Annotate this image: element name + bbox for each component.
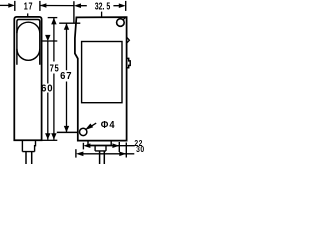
right view window bbox=[82, 42, 122, 103]
dim 75 bottom arrowhead bbox=[51, 133, 56, 139]
dim 75 top arrowhead bbox=[51, 18, 56, 25]
dim 30 right extension bar bbox=[125, 143, 127, 158]
right view top seam tick bbox=[101, 12, 103, 18]
right view side indicator wedge bbox=[127, 37, 130, 43]
dim 17 right tail shared line to 32.5 bbox=[40, 5, 74, 7]
right view bottom step1 bbox=[88, 141, 111, 146]
dim 30 line bbox=[83, 153, 134, 155]
svg-text:60: 60 bbox=[41, 83, 53, 94]
dim 75 stem bbox=[53, 18, 55, 140]
dim 22 line bbox=[90, 145, 135, 147]
right view top hole circle bbox=[117, 19, 125, 27]
dim 60 top crossbar bbox=[42, 40, 57, 42]
right view bottom step2 bbox=[95, 145, 106, 151]
svg-text:75: 75 bbox=[50, 62, 60, 73]
dim 22 right extension bar bbox=[118, 142, 120, 152]
dim 17 right arrowhead bbox=[40, 3, 47, 8]
left view inner cap frame bbox=[17, 20, 40, 65]
dim 30 left arrowhead bbox=[76, 152, 84, 157]
dim 17 left extension bar bbox=[14, 1, 16, 11]
bottom hole centerline bbox=[57, 131, 78, 133]
right view bottom hole circle bbox=[80, 128, 87, 135]
dim 30 left extension bar bbox=[75, 149, 77, 157]
dim 22 left extension bar bbox=[82, 143, 84, 150]
dim 67 top crossbar bbox=[59, 22, 80, 24]
dim 17 right extension bar bbox=[39, 1, 41, 11]
dim 60 bottom crossbar bbox=[42, 139, 58, 141]
dim 22 right arrowhead bbox=[112, 143, 119, 148]
left view bottom step bbox=[22, 140, 35, 151]
dim 60 stem bbox=[47, 41, 49, 140]
phi4 leader line bbox=[92, 123, 97, 126]
dim 67 top arrowhead bbox=[64, 23, 69, 29]
svg-text:67: 67 bbox=[60, 71, 72, 82]
left view body bbox=[14, 17, 41, 140]
dim 60 top arrowhead bbox=[45, 35, 50, 41]
dim 67 stem bbox=[66, 23, 68, 132]
dim 32.5 right extension bar bbox=[125, 1, 127, 11]
left view cable bbox=[26, 152, 32, 164]
dim 17 left tail and arrow bbox=[0, 4, 9, 6]
right view screw slot tick bbox=[123, 17, 125, 19]
svg-text:17: 17 bbox=[24, 0, 33, 11]
dim 60 bottom arrowhead bbox=[45, 133, 50, 139]
dim 67 bottom arrowhead bbox=[64, 126, 69, 132]
svg-text:Φ4: Φ4 bbox=[101, 120, 116, 132]
right view cable bbox=[100, 151, 105, 164]
dim 30 right arrowhead bbox=[119, 152, 126, 157]
phi4 leader arrowhead bbox=[85, 124, 93, 131]
dim 75 top crossbar bbox=[48, 17, 58, 19]
dim 17 left arrowhead bbox=[8, 3, 15, 8]
left view lens bottom arc bbox=[17, 49, 40, 60]
dim 22 left arrowhead bbox=[83, 143, 90, 148]
svg-text:30: 30 bbox=[136, 144, 145, 154]
dim 32.5 left arrowhead bbox=[74, 3, 81, 8]
svg-text:32. 5: 32. 5 bbox=[95, 0, 111, 12]
dim 32.5 left extension bar bbox=[73, 1, 75, 23]
right view body outline bbox=[75, 17, 127, 141]
left view lens dome arc bbox=[17, 22, 40, 33]
dim 32.5 right arrowhead bbox=[119, 3, 126, 8]
right view side tab bbox=[127, 58, 131, 67]
dim 32.5 dim line segments bbox=[81, 5, 119, 7]
left view top seam tick bbox=[27, 13, 29, 17]
